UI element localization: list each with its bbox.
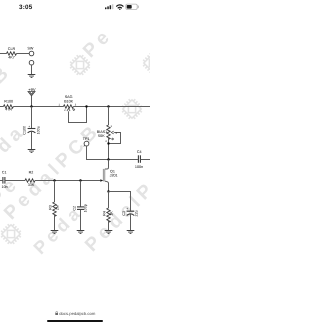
label Q1	[110, 170, 118, 178]
BIAS1 rotation marker	[112, 138, 114, 140]
svg-text:R100: R100	[4, 100, 13, 104]
label BIAS1	[97, 130, 107, 138]
wire +9V to rail	[31, 96, 33, 107]
wire source to C3	[109, 192, 131, 211]
svg-text:+: +	[127, 207, 129, 211]
wire C3 to ground	[130, 215, 132, 231]
ground (SW)	[28, 75, 36, 78]
wire R3 to ground	[54, 215, 56, 231]
svg-text:C3: C3	[122, 211, 126, 216]
wire CLR to SW	[17, 53, 30, 55]
wire input to CLR	[0, 53, 7, 55]
SAG wiper loop wire	[69, 107, 87, 123]
svg-text:R4: R4	[103, 211, 107, 216]
ground (C100)	[28, 150, 36, 153]
svg-text:R3: R3	[49, 205, 53, 210]
label CLR	[8, 47, 16, 60]
wire C4 to right edge	[141, 159, 150, 161]
svg-text:10n: 10n	[2, 185, 8, 189]
svg-text:100u: 100u	[37, 126, 41, 134]
label R100	[4, 100, 13, 112]
BIAS1 wiper arrow	[111, 131, 114, 134]
switch SW terminals	[29, 51, 34, 65]
wire R4 top	[108, 192, 110, 209]
label TP1	[83, 137, 90, 141]
wire R4 to ground	[108, 221, 110, 231]
node +9V junction	[30, 105, 32, 107]
label +9V	[28, 87, 36, 92]
node C2 junction	[79, 179, 81, 181]
svg-text:R2: R2	[29, 171, 34, 175]
resistor R2 33K	[25, 179, 35, 182]
wire C1 left stub	[0, 180, 2, 182]
label SAG	[64, 95, 74, 103]
BIAS1 wiper loop wire	[109, 133, 121, 144]
label R2	[28, 171, 35, 188]
capacitor C100 100u	[28, 129, 36, 133]
svg-text:1: 1	[110, 125, 112, 128]
svg-text:33K: 33K	[28, 183, 35, 187]
capacitor C1 10n	[3, 177, 5, 184]
resistor R3 2M	[53, 202, 56, 216]
label C2	[73, 204, 88, 212]
SAG pin numbers	[58, 103, 76, 112]
BIAS pin numbers	[105, 125, 117, 143]
wire BIAS bottom	[108, 138, 110, 160]
node BIAS top junction	[107, 105, 109, 107]
node BIAS wiper junction	[107, 142, 109, 144]
node R3 junction	[53, 179, 55, 181]
svg-text:C4: C4	[137, 150, 142, 154]
resistor CLR 4K7	[7, 52, 17, 55]
svg-text:+: +	[28, 125, 30, 129]
wire C2 to ground	[80, 210, 82, 231]
wire R2 to gate	[35, 180, 101, 182]
wire TP1 down and right	[87, 146, 138, 160]
label R3	[49, 205, 60, 210]
capacitor C2 100p	[77, 207, 84, 210]
svg-text:J201: J201	[110, 174, 118, 178]
wire C100 to ground	[31, 132, 33, 150]
label C4	[135, 150, 143, 169]
potentiometer BIAS1 50K	[107, 125, 110, 139]
transistor Q1 gate arrow	[100, 179, 103, 182]
SAG wiper arrow	[67, 108, 70, 112]
node SAG wiper junction	[85, 105, 87, 107]
battery	[126, 4, 139, 9]
test point TP1	[84, 141, 89, 146]
svg-text:3: 3	[105, 140, 107, 143]
ground (C2)	[77, 231, 85, 234]
svg-text:+9V: +9V	[28, 87, 36, 92]
svg-text:3: 3	[75, 103, 77, 106]
labels	[2, 47, 144, 217]
node drain junction	[107, 158, 109, 160]
label SW	[27, 47, 33, 51]
capacitor C4 100n	[138, 155, 140, 163]
signal bars	[105, 4, 113, 9]
resistor R100 47R	[3, 105, 13, 108]
svg-text:4K7: 4K7	[8, 56, 15, 60]
svg-text:2: 2	[64, 109, 66, 112]
svg-text:TP1: TP1	[83, 137, 90, 141]
resistor R4 1K	[107, 208, 110, 222]
svg-text:50K: 50K	[98, 134, 105, 138]
svg-text:C2: C2	[73, 206, 77, 211]
transistor Q1 J201 drain lead	[105, 160, 109, 170]
svg-text:C100: C100	[23, 126, 27, 135]
svg-text:1K: 1K	[110, 211, 114, 216]
svg-text:2M: 2M	[56, 205, 60, 210]
potentiometer SAG B10K	[63, 105, 73, 108]
svg-text:1: 1	[58, 103, 60, 106]
ground (C3)	[127, 231, 135, 234]
wire C2 top	[80, 181, 82, 207]
capacitor C3 22u	[127, 211, 135, 215]
wire SW to ground	[31, 65, 33, 75]
wire C1 to R2	[5, 180, 25, 182]
svg-text:47R: 47R	[5, 108, 12, 112]
svg-text:SAG: SAG	[65, 95, 73, 99]
power +9V	[28, 92, 35, 96]
wifi	[117, 5, 123, 9]
wire R100 to SAG	[13, 106, 63, 108]
SAG rotation marker	[73, 109, 75, 111]
svg-text:C1: C1	[2, 171, 7, 175]
svg-text:22u: 22u	[134, 210, 138, 216]
node source junction	[107, 190, 109, 192]
bottom url bar	[0, 311, 150, 316]
transistor Q1 channel bar	[103, 169, 105, 182]
home indicator	[47, 320, 103, 322]
transistor Q1 source lead	[105, 181, 109, 191]
watermark layer	[0, 0, 150, 325]
svg-text:CLR: CLR	[8, 47, 16, 51]
wire rail left edge to R100	[0, 106, 3, 108]
status bar	[0, 0, 150, 14]
capacitor C100 100u wire	[31, 107, 33, 129]
label C100	[23, 125, 41, 135]
wire R3 top	[54, 181, 56, 203]
label C1	[2, 171, 8, 189]
svg-text:B10K: B10K	[64, 100, 74, 104]
svg-text:100n: 100n	[135, 165, 143, 169]
label C3	[122, 207, 138, 217]
svg-text:SW: SW	[27, 47, 33, 51]
ground (R4)	[105, 231, 113, 234]
svg-text:100p: 100p	[84, 204, 88, 212]
wire SAG to right edge	[73, 106, 150, 108]
ground (R3)	[51, 231, 59, 234]
label R4	[103, 211, 114, 216]
wire BIAS top	[108, 107, 110, 126]
